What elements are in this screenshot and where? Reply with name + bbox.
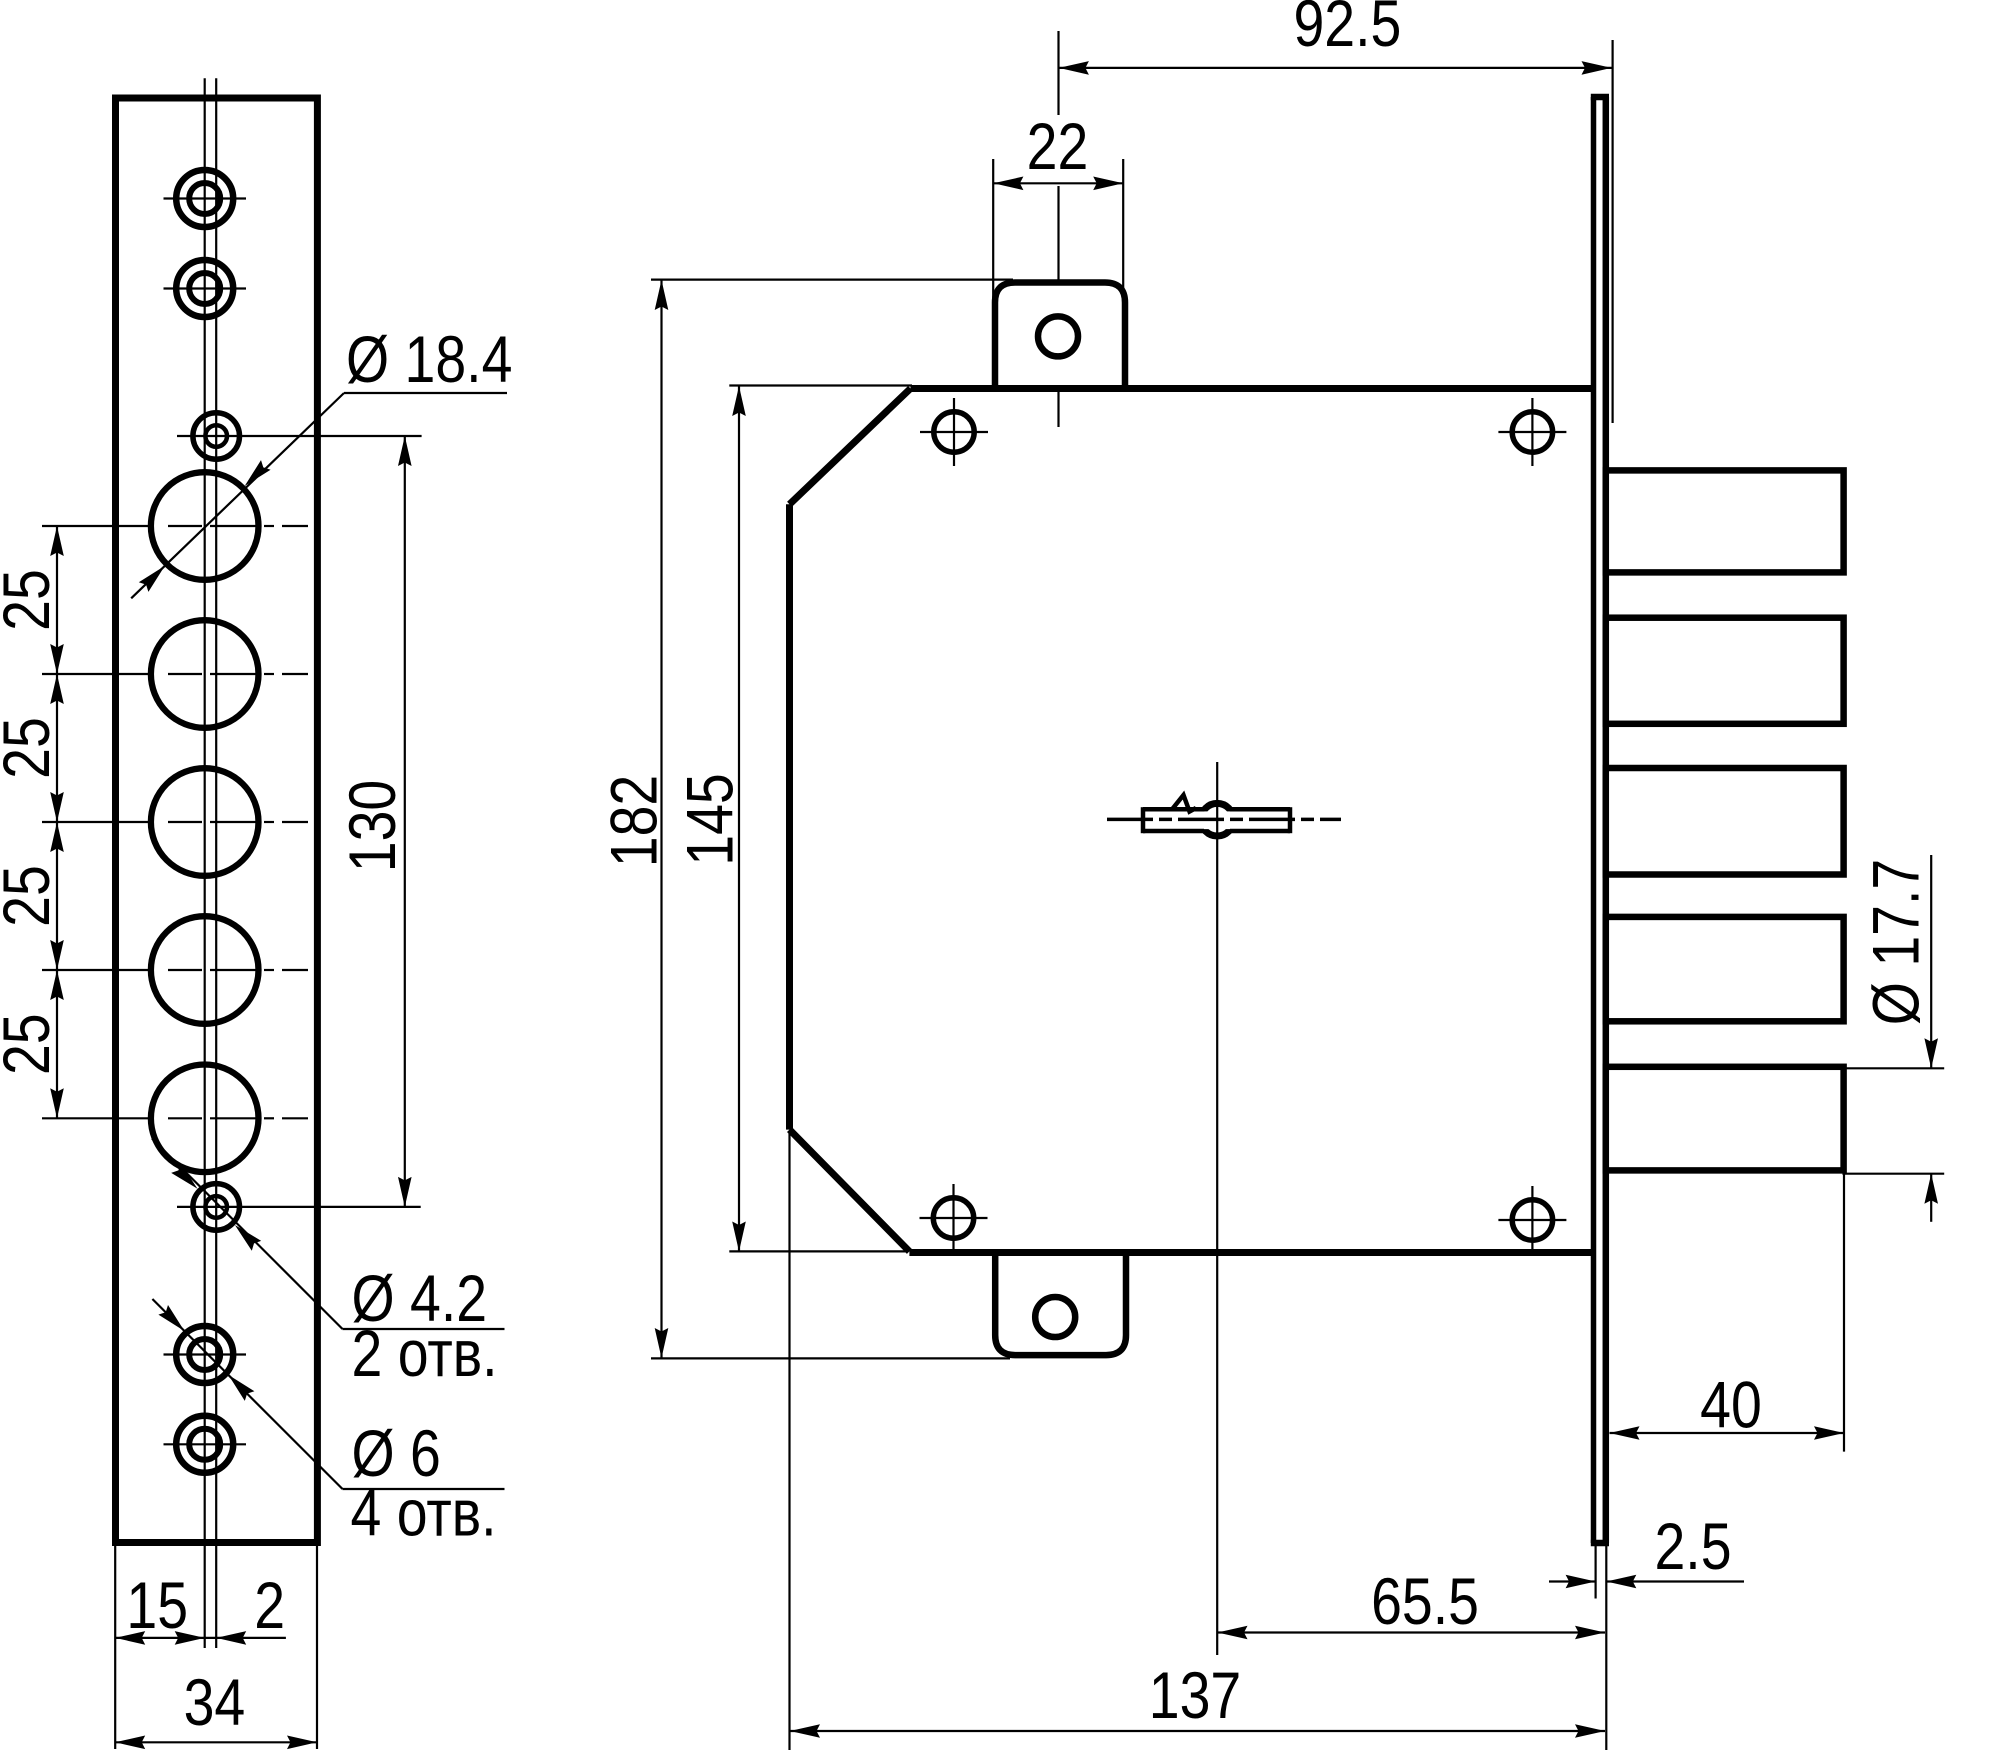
- bore hole Ø18.4 #3: [151, 768, 259, 876]
- screw hole Ø6 #4 (counterbored): [176, 1416, 233, 1473]
- ext line 92.5 left (tab axis lower): [1057, 186, 1059, 427]
- dimension 22: dimension line: [993, 182, 1123, 184]
- dimension chain 25x4: dimension line: [56, 526, 58, 1118]
- dimension 34: dimension line: [115, 1741, 317, 1743]
- screw hole Ø6 #1 (counterbored): [176, 170, 233, 227]
- centerline tick for Ø6 hole #1: [164, 197, 247, 199]
- top fixing tab: [995, 283, 1125, 391]
- ext line 22 left: [992, 159, 994, 300]
- svg-text:Ø 18.4: Ø 18.4: [346, 322, 512, 396]
- deadbolt 4: [1606, 917, 1844, 1021]
- dimension 15 and 2: dimension line: [115, 1637, 286, 1639]
- ext line 145 top (case top): [729, 384, 912, 386]
- svg-text:22: 22: [1027, 109, 1089, 183]
- leader arrowheads at bore hole: [245, 460, 271, 486]
- keyhole vertical centerline / 65.5 extension: [1216, 762, 1218, 1655]
- extension line from bore hole 5 center: [42, 1117, 152, 1119]
- keyhole horizontal centerline: [1107, 818, 1341, 822]
- ext line 92.5 right (faceplate plane): [1611, 40, 1613, 423]
- ext line 137/65.5/2.5 right (faceplate outer plane): [1605, 1544, 1607, 1750]
- deadbolt 2: [1606, 618, 1844, 724]
- dimension 145: arrowheads: [732, 386, 746, 416]
- leader arrowheads at Ø6 hole: [228, 1375, 254, 1401]
- svg-text:2 отв.: 2 отв.: [352, 1316, 498, 1390]
- screw hole Ø4.2 bottom (counterbored): [193, 1184, 240, 1231]
- bottom extension line left (plate edge): [114, 1546, 116, 1749]
- svg-text:4 отв.: 4 отв.: [351, 1476, 497, 1550]
- centerline dashes for bore hole 3: [168, 821, 202, 823]
- dimension 15: arrowheads: [115, 1631, 145, 1645]
- extension line from bore hole 1 center: [42, 525, 152, 527]
- svg-text:34: 34: [184, 1666, 246, 1740]
- bottom tab hole: [1035, 1297, 1075, 1337]
- svg-text:182: 182: [597, 775, 671, 867]
- svg-text:2.5: 2.5: [1654, 1509, 1731, 1583]
- dimension chain 25x4: arrowheads: [50, 526, 64, 556]
- leader line for Ø18.4: [131, 393, 344, 598]
- svg-text:145: 145: [673, 773, 747, 865]
- dimension 182: dimension line: [660, 280, 662, 1358]
- leader line for Ø4.2: [152, 1139, 343, 1330]
- dimension 92.5: arrowheads: [1059, 61, 1089, 75]
- dimension 182: arrowheads: [655, 280, 669, 310]
- svg-text:40: 40: [1700, 1368, 1762, 1442]
- svg-text:25: 25: [0, 569, 63, 631]
- svg-text:25: 25: [0, 865, 63, 927]
- bore hole Ø18.4 #2: [151, 620, 259, 728]
- faceplate side view right line: [1603, 97, 1610, 1543]
- ext line Ø17.7 bottom (bolt lower face): [1842, 1173, 1944, 1175]
- screw position mark 3: [933, 1198, 973, 1238]
- faceplate side view left line: [1591, 97, 1597, 1543]
- deadbolt 5: [1606, 1067, 1844, 1171]
- ext line 182 top (tab top): [651, 279, 1013, 281]
- screw hole Ø4.2 top (counterbored): [193, 413, 240, 460]
- left view: hole axis centerline (15 mm from edge): [204, 78, 206, 1648]
- dimension 34: arrowheads: [115, 1736, 145, 1750]
- dimension 2: arrowhead: [216, 1631, 246, 1645]
- dimension 137: dimension line: [790, 1730, 1605, 1732]
- extension line from bore hole 3 center: [42, 821, 152, 823]
- ext line 92.5 left (tab axis upper): [1057, 31, 1059, 115]
- dimension 65.5: dimension line: [1218, 1631, 1606, 1633]
- deadbolt 3: [1606, 768, 1844, 875]
- bore hole Ø18.4 #5: [151, 1065, 259, 1173]
- dimension 40: arrowheads: [1610, 1426, 1640, 1440]
- svg-text:25: 25: [0, 1013, 63, 1075]
- leader underline for Ø18.4: [344, 392, 507, 394]
- svg-text:65.5: 65.5: [1371, 1564, 1479, 1638]
- screw position mark 2: [1512, 412, 1552, 452]
- dimension 65.5: arrowheads: [1218, 1626, 1248, 1640]
- deadbolt 1: [1606, 470, 1844, 572]
- dimension 137: arrowheads: [790, 1724, 820, 1738]
- ext line 182 bottom (tab bottom): [651, 1357, 1010, 1359]
- centerline tick for Ø6 hole #4: [164, 1443, 247, 1445]
- svg-text:15: 15: [126, 1568, 188, 1642]
- centerline tick for Ø6 hole #3: [164, 1353, 247, 1355]
- faceplate bottom cap: [1591, 1540, 1609, 1547]
- svg-text:92.5: 92.5: [1293, 0, 1401, 60]
- ext line 2.5 left: [1594, 1544, 1596, 1599]
- centerline dashes for bore hole 1: [168, 525, 202, 527]
- svg-text:130: 130: [336, 780, 410, 872]
- centerline / 130-extension at top Ø4.2 hole: [177, 435, 422, 437]
- ext line Ø17.7 top (bolt upper face): [1842, 1067, 1944, 1069]
- centerline tick for Ø6 hole #2: [164, 287, 247, 289]
- ext line 137 left (case left plane): [788, 1132, 790, 1750]
- leader arrowheads at Ø4.2 hole: [235, 1225, 261, 1251]
- dimension Ø17.7: arrowheads: [1924, 1038, 1938, 1068]
- extension line from bore hole 2 center: [42, 673, 152, 675]
- leader underline for Ø4.2: [343, 1328, 505, 1330]
- screw hole Ø6 #2 (counterbored): [176, 260, 233, 317]
- svg-text:25: 25: [0, 717, 63, 779]
- dimension 2.5: tails and arrowheads: [1549, 1580, 1596, 1582]
- keyhole bitting zigzag: [1172, 795, 1197, 812]
- dimension 40: dimension line: [1610, 1432, 1845, 1434]
- keyhole slot edges: [1143, 807, 1204, 812]
- screw position mark 4: [1512, 1200, 1552, 1240]
- dimension 145: dimension line: [738, 386, 740, 1252]
- bottom fixing tab: [995, 1251, 1126, 1355]
- dimension 92.5: dimension line: [1059, 67, 1612, 69]
- dimension Ø17.7: dimension line upper: [1930, 855, 1932, 1068]
- centerline / 130-extension at bottom Ø4.2 hole: [177, 1206, 421, 1208]
- keyhole slot interior: [1145, 811, 1287, 829]
- centerline dashes for bore hole 4: [168, 969, 202, 971]
- ext line 40 right (bolt tip plane): [1843, 1171, 1845, 1452]
- leader underline for Ø6: [343, 1488, 505, 1490]
- svg-text:2: 2: [254, 1568, 285, 1642]
- bore hole Ø18.4 #4: [151, 916, 259, 1024]
- leader line for Ø6: [152, 1299, 342, 1489]
- bottom extension line right (plate edge): [316, 1546, 318, 1749]
- svg-text:137: 137: [1149, 1658, 1241, 1732]
- left view: plate mid centerline: [215, 78, 217, 1648]
- ext line 22 right: [1122, 159, 1124, 300]
- dimension 22: arrowheads: [993, 177, 1023, 191]
- dimension 130: arrowheads: [398, 436, 412, 466]
- ext line 145 bottom (case bottom): [729, 1250, 907, 1252]
- dimension Ø17.7: dimension line lower: [1930, 1174, 1932, 1222]
- keyhole ring: [1201, 803, 1234, 836]
- svg-text:Ø 17.7: Ø 17.7: [1859, 859, 1933, 1025]
- centerline dashes for bore hole 5: [168, 1117, 202, 1119]
- left view: faceplate outline: [116, 98, 318, 1543]
- top tab hole: [1038, 316, 1078, 356]
- lock case outline: [790, 389, 1594, 1253]
- bore hole Ø18.4 #1: [151, 472, 259, 580]
- faceplate top cap: [1591, 94, 1609, 101]
- screw hole Ø6 #3 (counterbored): [176, 1326, 233, 1383]
- centerline dashes for bore hole 2: [168, 673, 202, 675]
- screw position mark 1: [934, 412, 974, 452]
- dimension 130: dimension line: [404, 436, 406, 1207]
- extension line from bore hole 4 center: [42, 969, 152, 971]
